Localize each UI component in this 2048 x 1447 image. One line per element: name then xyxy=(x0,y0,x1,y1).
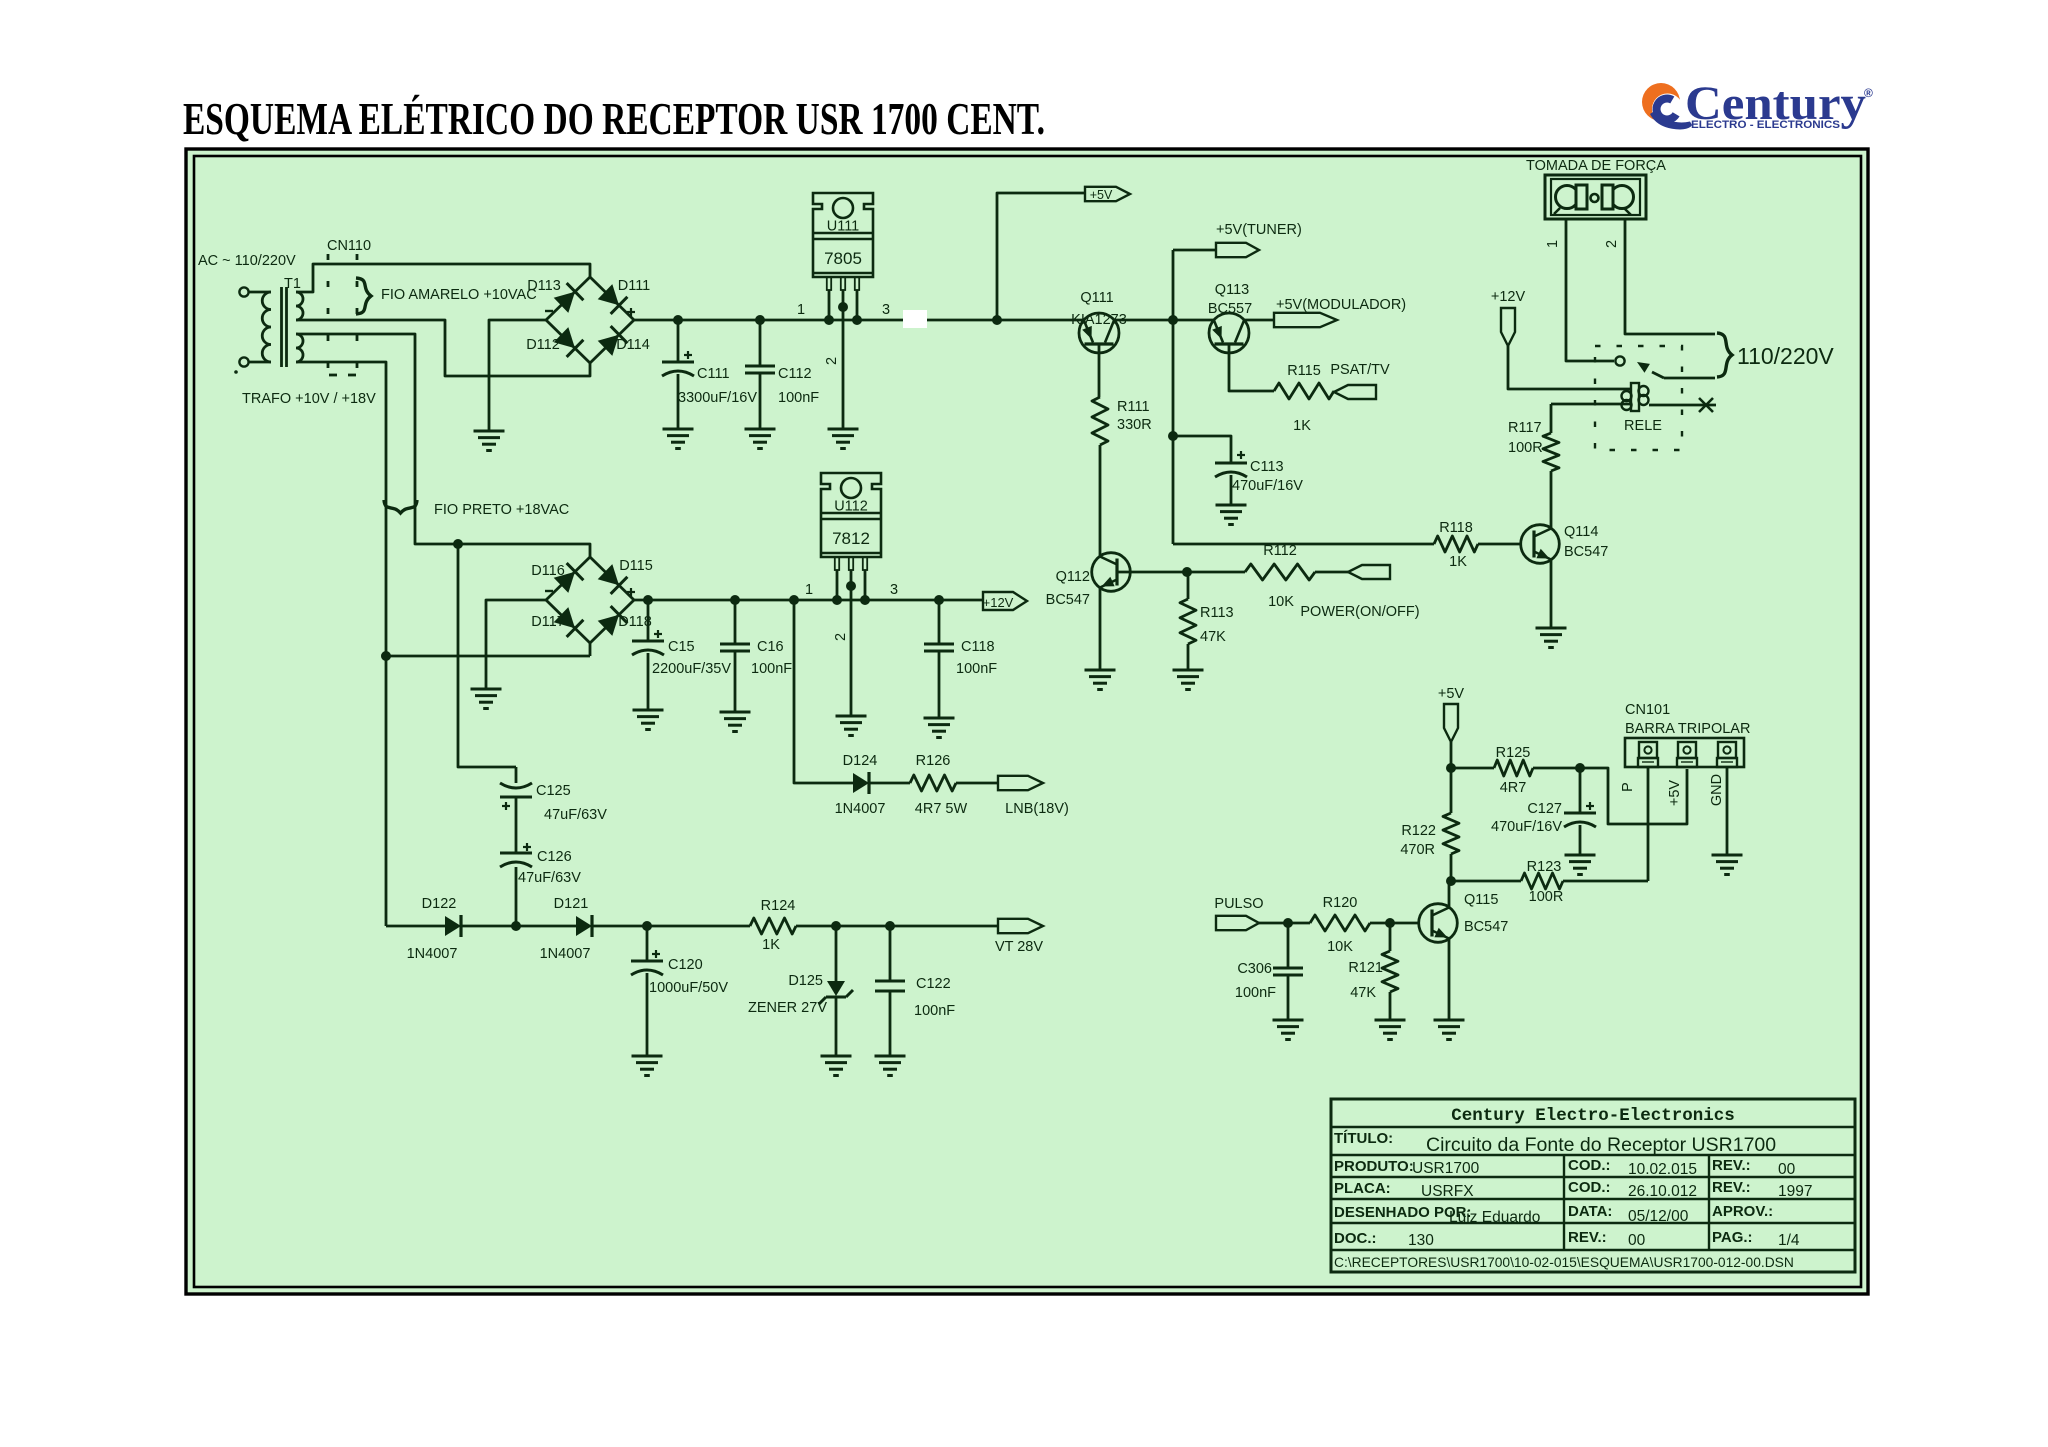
label R122 xyxy=(1401,823,1436,839)
svg-text:D113: D113 xyxy=(527,278,561,294)
svg-text:R124: R124 xyxy=(761,898,796,914)
svg-text:Q115: Q115 xyxy=(1464,892,1498,908)
wire secondary2 top xyxy=(296,334,590,557)
svg-text:P: P xyxy=(1620,782,1636,792)
label D125 value xyxy=(748,1000,827,1016)
svg-text:2: 2 xyxy=(824,357,840,365)
desenhado value xyxy=(1449,1209,1540,1226)
svg-text:D125: D125 xyxy=(788,973,823,989)
label R124 value xyxy=(762,937,780,953)
switch arm xyxy=(1637,362,1715,378)
wire rail 10V xyxy=(634,319,1084,322)
U112 pin1 lead xyxy=(832,570,842,605)
capacitor C16 xyxy=(720,595,750,712)
label D116 xyxy=(531,563,565,579)
svg-text:C15: C15 xyxy=(668,639,695,655)
diode D113 xyxy=(554,283,584,313)
Q111 base lead xyxy=(1098,344,1101,397)
resistor R126 xyxy=(910,775,956,791)
Q112 emitter wire xyxy=(1099,588,1102,670)
svg-text:BC547: BC547 xyxy=(1464,919,1508,935)
wire D122 row b xyxy=(461,921,576,931)
Q114 emitter wire xyxy=(1550,559,1553,628)
ground bridge 1 xyxy=(474,431,505,451)
label R124 xyxy=(761,898,796,914)
svg-text:2200uF/35V: 2200uF/35V xyxy=(652,661,731,677)
diode D122 xyxy=(445,915,461,937)
svg-text:Q112: Q112 xyxy=(1056,569,1090,585)
label R122 value xyxy=(1400,842,1435,858)
label R112 xyxy=(1263,543,1297,559)
diode D121 xyxy=(576,915,592,937)
relay dashed box xyxy=(1595,346,1682,450)
rev3 label xyxy=(1568,1229,1607,1246)
svg-text:TÍTULO:: TÍTULO: xyxy=(1334,1130,1393,1147)
label PULSO xyxy=(1214,896,1263,912)
data label xyxy=(1568,1203,1612,1220)
svg-text:FIO AMARELO +10VAC: FIO AMARELO +10VAC xyxy=(381,287,537,303)
label TOMADA DE FORCA xyxy=(1526,158,1666,174)
relay coil xyxy=(1622,383,1649,411)
label Q112 type xyxy=(1046,592,1090,608)
svg-text:PAG.:: PAG.: xyxy=(1712,1229,1753,1246)
svg-text:00: 00 xyxy=(1628,1232,1646,1249)
wire to D124 xyxy=(789,595,853,783)
label R115 value xyxy=(1293,418,1311,434)
svg-text:C120: C120 xyxy=(668,957,703,973)
svg-text:REV.:: REV.: xyxy=(1568,1229,1607,1246)
label R113 value xyxy=(1200,629,1226,645)
rev1 value xyxy=(1778,1161,1796,1178)
flag PULSO xyxy=(1216,916,1259,930)
svg-text:00: 00 xyxy=(1778,1161,1796,1178)
label CN101 xyxy=(1625,702,1670,718)
resistor R122 xyxy=(1443,768,1459,881)
svg-text:C16: C16 xyxy=(757,639,784,655)
svg-text:3300uF/16V: 3300uF/16V xyxy=(678,390,757,406)
U111 pin1 lead xyxy=(824,290,834,325)
svg-text:Q114: Q114 xyxy=(1564,524,1598,540)
label Q115 type xyxy=(1464,919,1508,935)
svg-text:7805: 7805 xyxy=(824,249,862,268)
titulo label xyxy=(1334,1130,1393,1147)
svg-text:R123: R123 xyxy=(1527,859,1562,875)
label R117 xyxy=(1508,420,1542,436)
diode D112 xyxy=(554,327,584,357)
svg-text:C306: C306 xyxy=(1237,961,1272,977)
bridge 2 minus sign xyxy=(545,590,553,592)
flag POWER(ON/OFF) xyxy=(1348,565,1390,579)
title block header xyxy=(1451,1106,1735,1126)
regulator U112 7812 xyxy=(821,473,881,570)
U111 pin3 lead xyxy=(852,290,862,325)
label C15 value xyxy=(652,661,731,677)
ground C118 xyxy=(924,718,955,738)
label R121 xyxy=(1348,960,1383,976)
capacitor C113 xyxy=(1173,436,1247,505)
svg-text:LNB(18V): LNB(18V) xyxy=(1005,801,1069,817)
svg-text:2: 2 xyxy=(833,633,849,641)
svg-text:+5V: +5V xyxy=(1090,188,1113,202)
wire to +5V flag xyxy=(992,193,1085,325)
svg-text:1K: 1K xyxy=(762,937,780,953)
label R126 xyxy=(916,753,951,769)
svg-text:1N4007: 1N4007 xyxy=(407,946,458,962)
svg-text:COD.:: COD.: xyxy=(1568,1179,1611,1196)
label R113 xyxy=(1200,605,1234,621)
svg-text:Luiz Eduardo: Luiz Eduardo xyxy=(1449,1209,1540,1226)
ground C306 xyxy=(1273,1020,1304,1040)
label FIO AMARELO +10VAC xyxy=(381,287,537,303)
switch pivot xyxy=(1615,356,1624,365)
ground D125 xyxy=(821,1056,852,1076)
svg-text:®: ® xyxy=(1864,86,1873,100)
desenhado label xyxy=(1334,1204,1472,1221)
svg-text:47uF/63V: 47uF/63V xyxy=(518,870,581,886)
label CN101 pin +5V xyxy=(1667,780,1683,807)
bridge 1 diamond xyxy=(546,277,634,363)
label D124 xyxy=(843,753,878,769)
label D115 xyxy=(619,558,653,574)
rev2 label xyxy=(1712,1179,1751,1196)
junction R122 bottom xyxy=(1446,876,1456,886)
svg-text:1000uF/50V: 1000uF/50V xyxy=(649,980,728,996)
svg-text:D117: D117 xyxy=(531,614,565,630)
label D111 xyxy=(618,278,651,294)
label R121 value xyxy=(1350,985,1376,1001)
label R120 value xyxy=(1327,939,1353,955)
svg-text:APROV.:: APROV.: xyxy=(1712,1203,1773,1220)
U111 pin 2 label xyxy=(824,357,840,365)
flag +5V(TUNER) xyxy=(1216,243,1259,257)
label +5V q115 xyxy=(1438,686,1465,702)
rev3 value xyxy=(1628,1232,1646,1249)
brace FIO PRETO xyxy=(384,500,417,513)
capacitor C15 xyxy=(632,595,664,710)
bridge 1 plus sign xyxy=(627,308,635,316)
connector CN101 xyxy=(1625,738,1744,767)
capacitor C111 xyxy=(662,315,694,429)
U112 pin2 lead xyxy=(846,570,856,716)
label C125 value xyxy=(544,807,607,823)
label R125 xyxy=(1496,745,1531,761)
label R123 value xyxy=(1529,889,1564,905)
diode D124 xyxy=(853,772,869,794)
svg-text:1997: 1997 xyxy=(1778,1183,1812,1200)
label D114 xyxy=(616,337,650,353)
ground C122 xyxy=(875,1056,906,1076)
label C113 xyxy=(1250,459,1284,475)
label C112 value xyxy=(778,390,819,406)
label AC ~ 110/220V xyxy=(198,253,296,269)
label RELE xyxy=(1624,418,1662,434)
wire D124 to R126 xyxy=(869,782,910,785)
ground C127 xyxy=(1565,855,1596,875)
board inner border xyxy=(194,156,1861,1287)
ground CN101 xyxy=(1712,855,1743,875)
label Q114 type xyxy=(1564,544,1608,560)
svg-text:Q113: Q113 xyxy=(1215,282,1249,298)
wire +12V to coil xyxy=(1508,346,1630,389)
label D118 xyxy=(618,614,652,630)
transistor Q111 xyxy=(1079,313,1119,353)
svg-text:470R: 470R xyxy=(1400,842,1435,858)
wire rail 10V b xyxy=(1114,319,1214,322)
label CN101 pin P xyxy=(1620,782,1636,792)
svg-text:3: 3 xyxy=(882,302,890,318)
svg-text:C127: C127 xyxy=(1527,801,1562,817)
wire CN101 GND pin xyxy=(1726,767,1729,855)
junction winding2 to bridge2 bottom xyxy=(381,643,590,661)
label R123 xyxy=(1527,859,1562,875)
wire tomada pin1 xyxy=(1566,219,1614,361)
bridge 2 diamond xyxy=(546,557,634,643)
svg-text:1: 1 xyxy=(1545,240,1561,248)
tomada pin 1 label xyxy=(1545,240,1561,248)
label C120 value xyxy=(649,980,728,996)
capacitor C127 xyxy=(1564,768,1596,855)
wire secondary2 bottom xyxy=(296,362,386,926)
svg-text:D112: D112 xyxy=(526,337,560,353)
label Q111 xyxy=(1080,290,1113,306)
wire +5V to CN101 pin2 xyxy=(1580,768,1687,824)
ground Q114 xyxy=(1536,628,1567,648)
ground R121 xyxy=(1375,1020,1406,1040)
label R126 value xyxy=(915,801,968,817)
svg-text:GND: GND xyxy=(1709,774,1725,806)
svg-text:100nF: 100nF xyxy=(914,1003,955,1019)
label C111 value xyxy=(678,390,757,406)
wire bridge1 minus to ground xyxy=(489,320,546,431)
power socket TOMADA DE FORCA xyxy=(1545,175,1646,219)
capacitor C122 xyxy=(875,926,905,1056)
svg-text:D111: D111 xyxy=(618,278,651,294)
label Q113 type xyxy=(1208,301,1252,317)
label D112 xyxy=(526,337,560,353)
resistor R120 xyxy=(1310,915,1419,931)
label VT 28V xyxy=(995,939,1043,955)
svg-text:D114: D114 xyxy=(616,337,650,353)
svg-text:Century Electro-Electronics: Century Electro-Electronics xyxy=(1451,1106,1735,1126)
transistor Q114 xyxy=(1521,525,1560,564)
svg-text:D122: D122 xyxy=(422,896,457,912)
label C16 xyxy=(757,639,784,655)
svg-text:PRODUTO:: PRODUTO: xyxy=(1334,1158,1414,1175)
svg-text:1K: 1K xyxy=(1449,554,1467,570)
pag label xyxy=(1712,1229,1753,1246)
ground C16 xyxy=(720,712,751,732)
label C306 xyxy=(1237,961,1272,977)
label +5V(TUNER) xyxy=(1216,222,1302,238)
title block table xyxy=(1331,1099,1855,1272)
label CN101 pin GND xyxy=(1709,774,1725,806)
resistor R113 xyxy=(1180,572,1196,670)
resistor R111 xyxy=(1092,397,1108,445)
Q114 collector wire xyxy=(1550,471,1553,529)
label C118 xyxy=(961,639,995,655)
label R111 value xyxy=(1117,417,1152,433)
flag +12V xyxy=(983,592,1027,610)
svg-text:C126: C126 xyxy=(537,849,572,865)
diode D116 xyxy=(554,563,584,593)
rev2 value xyxy=(1778,1183,1812,1200)
ground C120 xyxy=(632,1056,663,1076)
flag +12V relay xyxy=(1501,308,1515,346)
wire rail 12V xyxy=(634,599,983,602)
label C15 xyxy=(668,639,695,655)
U111 pin 1 label xyxy=(797,302,805,318)
svg-text:BARRA TRIPOLAR: BARRA TRIPOLAR xyxy=(1625,721,1750,737)
label FIO PRETO +18VAC xyxy=(434,502,569,518)
placa value xyxy=(1421,1183,1474,1200)
label BARRA TRIPOLAR xyxy=(1625,721,1750,737)
svg-text:10K: 10K xyxy=(1268,594,1294,610)
label C122 xyxy=(916,976,951,992)
svg-text:D124: D124 xyxy=(843,753,878,769)
svg-text:CN101: CN101 xyxy=(1625,702,1670,718)
svg-text:R118: R118 xyxy=(1439,520,1473,536)
U112 pin 3 label xyxy=(890,582,898,598)
svg-text:26.10.012: 26.10.012 xyxy=(1628,1183,1697,1200)
wire secondary1 bottom xyxy=(296,320,590,376)
diode D114 xyxy=(598,326,628,356)
resistor R118 xyxy=(1434,536,1478,552)
svg-text:100R: 100R xyxy=(1508,440,1543,456)
svg-text:110/220V: 110/220V xyxy=(1737,343,1834,369)
board outer border xyxy=(186,149,1868,1294)
label C126 value xyxy=(518,870,581,886)
svg-text:R126: R126 xyxy=(916,753,951,769)
cod2 value xyxy=(1628,1183,1697,1200)
svg-text:+5V: +5V xyxy=(1438,686,1465,702)
label C111 xyxy=(697,366,730,382)
svg-text:Circuito da Fonte do Receptor: Circuito da Fonte do Receptor USR1700 xyxy=(1426,1134,1776,1156)
svg-text:BC557: BC557 xyxy=(1208,301,1252,317)
label POWER(ON/OFF) xyxy=(1300,604,1419,620)
wire to R118 xyxy=(1173,543,1434,546)
svg-text:+12V: +12V xyxy=(983,595,1014,610)
svg-text:D121: D121 xyxy=(554,896,589,912)
label R118 xyxy=(1439,520,1473,536)
wire D122 row a xyxy=(386,925,445,928)
svg-text:1: 1 xyxy=(797,302,805,318)
label C120 xyxy=(668,957,703,973)
svg-text:330R: 330R xyxy=(1117,417,1152,433)
svg-text:100R: 100R xyxy=(1529,889,1564,905)
svg-text:REV.:: REV.: xyxy=(1712,1157,1751,1174)
capacitor C126 xyxy=(500,839,532,926)
label R118 value xyxy=(1449,554,1467,570)
label D121 value xyxy=(540,946,591,962)
svg-text:BC547: BC547 xyxy=(1046,592,1090,608)
label D124 value xyxy=(835,801,886,817)
svg-text:3: 3 xyxy=(890,582,898,598)
svg-text:PLACA:: PLACA: xyxy=(1334,1180,1391,1197)
transistor Q113 xyxy=(1209,313,1249,353)
svg-text:+5V: +5V xyxy=(1667,780,1683,807)
wire to C125 xyxy=(458,544,516,767)
resistor R123 xyxy=(1451,873,1648,889)
svg-text:RELE: RELE xyxy=(1624,418,1662,434)
label Q112 xyxy=(1056,569,1090,585)
label Q114 xyxy=(1564,524,1598,540)
flag +5V q115 xyxy=(1444,704,1458,742)
brace FIO AMARELO xyxy=(356,278,371,314)
svg-text:USRFX: USRFX xyxy=(1421,1183,1474,1200)
svg-text:470uF/16V: 470uF/16V xyxy=(1232,478,1303,494)
label D121 xyxy=(554,896,589,912)
svg-text:7812: 7812 xyxy=(832,529,870,548)
svg-text:Q111: Q111 xyxy=(1080,290,1113,306)
svg-text:AC ~ 110/220V: AC ~ 110/220V xyxy=(198,253,296,269)
U112 pin 2 label xyxy=(833,633,849,641)
bridge 1 minus sign xyxy=(545,310,553,312)
wire rail 10V c xyxy=(1244,319,1274,322)
svg-text:1N4007: 1N4007 xyxy=(835,801,886,817)
svg-text:470uF/16V: 470uF/16V xyxy=(1491,819,1562,835)
svg-text:TOMADA DE FORÇA: TOMADA DE FORÇA xyxy=(1526,158,1666,174)
svg-text:CN110: CN110 xyxy=(327,238,371,254)
svg-text:4R7: 4R7 xyxy=(1500,780,1527,796)
placa label xyxy=(1334,1180,1391,1197)
svg-text:10.02.015: 10.02.015 xyxy=(1628,1161,1697,1178)
svg-text:KIA1273: KIA1273 xyxy=(1071,312,1127,328)
svg-text:1N4007: 1N4007 xyxy=(540,946,591,962)
wire bridge2 minus to ground xyxy=(486,600,546,689)
aprov label xyxy=(1712,1203,1773,1220)
wire PULSO to R120 xyxy=(1259,918,1310,928)
page title xyxy=(183,93,1045,144)
wire tomada pin2 xyxy=(1625,219,1715,334)
ground R113 xyxy=(1173,670,1204,690)
label C125 xyxy=(536,783,571,799)
label D125 xyxy=(788,973,823,989)
resistor R115 xyxy=(1274,383,1334,399)
svg-text:TRAFO +10V / +18V: TRAFO +10V / +18V xyxy=(242,391,376,407)
label TRAFO +10V / +18V xyxy=(242,391,376,407)
label C127 value xyxy=(1491,819,1562,835)
svg-text:C112: C112 xyxy=(778,366,812,382)
Q113 base lead xyxy=(1229,344,1274,391)
svg-text:1/4: 1/4 xyxy=(1778,1232,1800,1249)
U111 pin2 lead xyxy=(838,290,848,429)
capacitor C118 xyxy=(924,595,954,718)
diode D118 xyxy=(598,606,628,636)
transistor Q115 xyxy=(1419,904,1458,943)
label C16 value xyxy=(751,661,792,677)
svg-text:+5V(MODULADOR): +5V(MODULADOR) xyxy=(1276,297,1406,313)
wire TUNER vertical xyxy=(1168,250,1178,544)
svg-text:R115: R115 xyxy=(1287,363,1321,379)
capacitor C306 xyxy=(1273,923,1303,1020)
diode D117 xyxy=(554,607,584,637)
wire R118 to Q114 xyxy=(1478,543,1521,546)
label C127 xyxy=(1527,801,1562,817)
cod2 label xyxy=(1568,1179,1611,1196)
diode D115 xyxy=(598,564,628,594)
relay contact X xyxy=(1699,398,1713,412)
capacitor C112 xyxy=(745,315,775,429)
tomada pin 2 label xyxy=(1604,240,1620,248)
svg-text:ELECTRO - ELECTRONICS: ELECTRO - ELECTRONICS xyxy=(1691,119,1840,131)
flag +5V xyxy=(1085,187,1130,202)
svg-text:ZENER 27V: ZENER 27V xyxy=(748,1000,827,1016)
rev1 label xyxy=(1712,1157,1751,1174)
wire R117 to coil xyxy=(1551,403,1630,406)
Q115 emitter wire xyxy=(1448,938,1451,1020)
label LNB(18V) xyxy=(1005,801,1069,817)
svg-text:C118: C118 xyxy=(961,639,995,655)
